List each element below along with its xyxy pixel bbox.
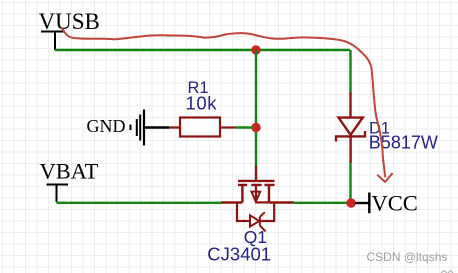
freehand arrowhead <box>378 174 392 182</box>
wire VUSB top horizontal <box>55 49 350 51</box>
svg-text:B5817W: B5817W <box>369 133 438 153</box>
source stub <box>241 185 243 203</box>
channel segments <box>238 184 275 186</box>
wire VCC port <box>355 202 369 204</box>
body diode loop <box>237 203 250 222</box>
wire gate vertical <box>255 50 257 166</box>
gate bar <box>238 180 275 182</box>
junction node top (gate branch) <box>251 45 260 54</box>
watermark fragment bottom-right <box>441 271 453 273</box>
port label VBAT <box>40 159 99 184</box>
svg-text:VCC: VCC <box>372 190 418 215</box>
wire Q1 drain to VCC junction <box>294 202 348 204</box>
diode D1 <box>336 92 365 163</box>
drain stub <box>268 185 270 203</box>
svg-text:10k: 10k <box>186 92 218 113</box>
port symbol VBAT <box>47 185 69 203</box>
freehand annotation curve <box>62 29 385 177</box>
svg-text:VUSB: VUSB <box>39 9 100 34</box>
junction node VCC <box>346 198 355 207</box>
junction node R1 output <box>251 123 260 132</box>
bulk line with arrow <box>255 185 257 201</box>
port label VUSB <box>39 9 100 34</box>
gate pin <box>255 166 257 180</box>
port symbol VCC <box>368 193 370 214</box>
transistor Q1 (PMOS) <box>221 166 294 231</box>
ground symbol <box>131 110 145 146</box>
svg-text:GND: GND <box>87 116 126 136</box>
source rail <box>221 201 242 203</box>
wire VBAT horizontal <box>57 202 222 204</box>
wire R1 to junction <box>236 126 253 128</box>
wire D1 to VCC junction <box>349 163 351 200</box>
drain rail <box>269 201 294 203</box>
svg-text:VBAT: VBAT <box>40 159 99 184</box>
wire GND to R1 <box>145 126 169 128</box>
port symbol VUSB <box>41 32 65 51</box>
label GND <box>87 116 126 136</box>
svg-text:CSDN @ltqshs: CSDN @ltqshs <box>367 250 448 264</box>
resistor R1 <box>169 118 236 137</box>
wire right vertical upper (to D1) <box>349 50 351 92</box>
svg-text:CJ3401: CJ3401 <box>207 244 271 265</box>
port label VCC <box>372 190 418 215</box>
